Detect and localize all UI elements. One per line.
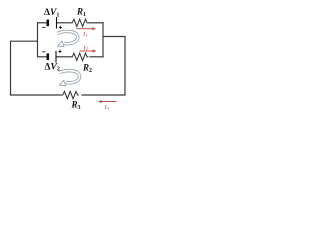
wire after R2 to right vertical — [90, 56, 104, 58]
battery ΔV1 minus sign — [42, 26, 45, 28]
battery ΔV2 plus sign — [58, 50, 61, 53]
wire right tap to outer-right vertical — [103, 37, 125, 96]
wire left vertical (node a) — [37, 22, 39, 57]
resistor R2 — [71, 53, 89, 60]
current arrow I3 — [98, 100, 117, 111]
loop arrow 1 (top loop, clockwise) — [58, 31, 78, 46]
battery ΔV2 negative plate — [46, 53, 49, 60]
current arrow I1 — [77, 27, 97, 38]
battery ΔV2 minus sign — [42, 51, 45, 53]
wire top-right segment (battery to R1 to corner) — [57, 22, 72, 24]
loop arrow 2 (bottom loop, clockwise) — [59, 71, 79, 86]
wire middle-left segment — [38, 56, 48, 58]
battery ΔV2 positive plate — [55, 51, 57, 63]
svg-text:I2: I2 — [83, 44, 89, 51]
wire bottom-right segment after R3 — [82, 94, 126, 96]
current arrow I2 — [80, 44, 97, 52]
resistor R3 — [62, 91, 80, 98]
svg-text:I3: I3 — [104, 104, 110, 111]
wire left tap to outer-left vertical — [11, 41, 38, 95]
wire right vertical (node b) — [102, 22, 104, 57]
wire middle segment (battery to R2) — [56, 56, 71, 58]
resistor R1 — [71, 19, 89, 26]
battery ΔV1 positive plate — [56, 17, 58, 29]
svg-text:I1: I1 — [82, 31, 87, 38]
battery ΔV1 negative plate — [46, 20, 49, 27]
wire after R1 to top-right corner — [89, 22, 104, 24]
battery ΔV1 plus sign — [59, 26, 62, 29]
wire bottom-left segment — [10, 94, 62, 96]
wire top-left segment — [38, 22, 48, 24]
